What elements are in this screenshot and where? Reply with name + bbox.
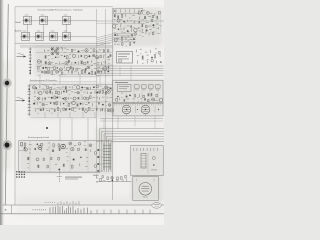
- wire band B mid3: [34, 107, 112, 109]
- wire row1-row2 link c: [66, 25, 68, 33]
- wire band A bottom drops: [40, 74, 100, 84]
- left margin fold line: [5, 4, 8, 205]
- wire band B top rail: [30, 84, 113, 86]
- legend label a: [5, 207, 7, 211]
- video amplifier row upper: [32, 84, 113, 101]
- wire interband vertical c: [87, 118, 89, 141]
- tuner supply cluster left: [112, 13, 137, 46]
- scan haze: [19, 8, 163, 200]
- tube box ticks: [115, 104, 161, 106]
- tuner block Band III stage 1: [22, 31, 30, 41]
- tuner block Band III stage 4: [63, 31, 71, 41]
- wire sound out: [20, 171, 100, 173]
- wire band B mid2: [34, 101, 112, 103]
- sound section box bottom: [19, 172, 101, 174]
- wire below tubes 1: [100, 118, 163, 120]
- wire sound verticals: [30, 141, 88, 173]
- wire interband vertical a: [59, 118, 61, 141]
- wire horizontal bus mid: [96, 66, 164, 76]
- wire label underline: [29, 81, 96, 83]
- tuner supply cluster right: [137, 10, 162, 37]
- ladder side contacts: [94, 149, 103, 172]
- tuner block Band I stage 1: [24, 15, 32, 25]
- wire bottom-right top rail: [96, 141, 164, 143]
- relay cluster right: [137, 49, 162, 64]
- page inner tone: [15, 7, 164, 205]
- label circuit board note upper: [30, 79, 57, 82]
- sound section box top: [19, 140, 113, 142]
- legend marks lower: [33, 206, 150, 214]
- wire tube taps: [104, 116, 155, 129]
- antenna arrow upper: [17, 53, 27, 58]
- punch hole upper: [3, 79, 11, 87]
- legend marks upper: [45, 201, 79, 204]
- legend cell divider: [11, 205, 13, 214]
- terminal column band A: [29, 47, 32, 75]
- svg-text:Bestückungsseite Tonteil: Bestückungsseite Tonteil: [28, 136, 49, 139]
- channel selector ladder: [103, 143, 111, 170]
- terminal grid: [16, 171, 25, 178]
- wire right cluster verticals: [141, 13, 161, 35]
- transistor T sound 2: [61, 144, 66, 149]
- legend stamp oval: [152, 203, 162, 209]
- CRT base diagram: [133, 177, 159, 201]
- wire band A mid2: [36, 64, 112, 66]
- page background: [0, 0, 164, 225]
- wire band B bottom drops: [45, 112, 95, 118]
- power supply block: [131, 146, 163, 176]
- wire power rail: [96, 181, 132, 183]
- punch hole lower: [3, 141, 12, 150]
- tuner block Band I stage 2: [40, 15, 48, 25]
- tuner block Band III stage 3: [50, 31, 58, 41]
- terminal column band B: [28, 84, 31, 116]
- svg-text:Gesamtschaltbild Fernseh-Chass: Gesamtschaltbild Fernseh-Chassis · Stand…: [38, 8, 84, 11]
- test point column: [57, 169, 63, 182]
- wire deflection verticals: [126, 84, 158, 103]
- legend rail upper: [3, 204, 165, 206]
- wire below tubes 2: [100, 120, 163, 122]
- function block deflection unit: [113, 80, 163, 103]
- wire bus tap: [120, 66, 131, 80]
- wire band B lower rail: [30, 117, 96, 119]
- feed column ticks: [97, 52, 110, 76]
- oscillator coil cluster: [51, 47, 63, 55]
- wire long vertical feed a: [96, 9, 98, 172]
- wire harness lower right: [100, 129, 165, 172]
- transistor T sound: [38, 146, 42, 150]
- sound section components lower: [27, 156, 88, 168]
- tube sockets box: [113, 102, 163, 116]
- legend rail lower: [0, 213, 164, 215]
- coupling parts: [19, 143, 26, 151]
- video amplifier row lower: [33, 101, 113, 113]
- IF amplifier stage row upper: [44, 48, 111, 60]
- label pcb note small: [65, 177, 82, 180]
- wire row1-row2 link b: [43, 25, 45, 33]
- scanner edge shadow strip: [0, 0, 4, 225]
- wire long vertical feed b: [105, 9, 107, 140]
- schematic frame left border: [14, 7, 16, 206]
- connector strip top right: [114, 8, 143, 13]
- wire interband vertical b: [71, 118, 73, 141]
- function block deflection driver: [117, 52, 133, 64]
- wire band B mid: [34, 89, 112, 91]
- wire band A top: [20, 46, 113, 48]
- node junction dot: [46, 127, 48, 129]
- svg-text:Band III: Band III: [15, 30, 22, 32]
- svg-text:Bestückungsseite ZF-Verstärker: Bestückungsseite ZF-Verstärker: [30, 79, 57, 82]
- label pcb note small 2: [93, 174, 99, 177]
- wire Band III bus: [20, 36, 97, 38]
- label Band III: [15, 30, 22, 32]
- wire Band I bus: [22, 20, 97, 22]
- sound section box left: [18, 141, 20, 173]
- label Band I: [16, 22, 22, 24]
- tuner block Band I stage 3: [63, 15, 71, 25]
- antenna arrow lower: [16, 97, 26, 102]
- IF amplifier stage row mid: [37, 59, 110, 76]
- wire bus top right: [97, 34, 137, 46]
- sound section components upper: [24, 141, 92, 153]
- wire below tuner rows: [15, 42, 110, 44]
- power input row: [96, 175, 127, 183]
- tuner block Band III stage 2: [36, 31, 44, 41]
- scan vignette: [0, 60, 164, 216]
- schematic frame top border: [15, 6, 113, 8]
- wire bus stub left: [60, 75, 96, 77]
- wire row1-row2 link a: [27, 25, 29, 33]
- tube V2: [141, 105, 150, 116]
- wire below tuner rows 2: [20, 44, 113, 46]
- label circuit board note lower: [28, 136, 49, 139]
- tube V1: [122, 105, 131, 116]
- title text: [38, 8, 84, 11]
- section divider vertical: [112, 8, 114, 200]
- svg-text:Band I: Band I: [16, 22, 22, 24]
- deflection components row 2: [116, 93, 163, 104]
- wire cross line upper: [97, 21, 165, 23]
- wire band A mid: [36, 52, 112, 54]
- tube aux marks: [136, 106, 160, 113]
